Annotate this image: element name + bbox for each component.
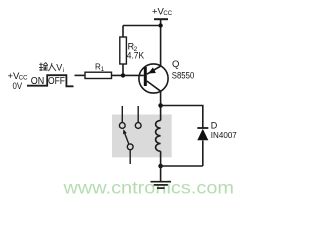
svg-text:4.7K: 4.7K — [127, 51, 144, 61]
input square waveform ON/OFF — [27, 75, 74, 86]
wire coil bottom — [160, 151, 162, 166]
svg-text:i: i — [63, 68, 64, 74]
transistor Q circle — [139, 64, 168, 93]
transistor base bar — [144, 67, 147, 86]
wire R2 bottom lead — [122, 64, 124, 75]
wire +Vcc rail left to R2 — [123, 25, 161, 27]
wire +Vcc terminal bar — [154, 18, 168, 20]
svg-text:S8550: S8550 — [172, 70, 195, 80]
wire collector vertical — [160, 91, 162, 120]
wire base from R1 to transistor — [112, 74, 144, 76]
relay armature arrowhead — [123, 129, 127, 134]
resistor R1 box — [85, 72, 112, 78]
wire input to R1 — [75, 74, 86, 76]
svg-text:Q: Q — [172, 59, 179, 70]
relay contact stub right — [137, 106, 139, 123]
transistor collector diagonal — [147, 81, 161, 91]
relay contact stub bottom — [129, 150, 131, 164]
label 输入Vi (input) : CJK drawn as vector strokes — [39, 63, 56, 71]
wire diode bottom lead — [202, 141, 204, 167]
relay contact stub left — [121, 106, 123, 123]
node coil bottom junction — [158, 164, 163, 169]
relay contact circle movable — [127, 144, 133, 150]
wire top rail to diode — [161, 106, 203, 129]
wire +Vcc stub down — [160, 20, 162, 26]
wire bottom rail diode to coil — [161, 165, 203, 167]
svg-text:CC: CC — [163, 11, 172, 17]
wire ground lead — [160, 166, 162, 182]
ground — [151, 182, 172, 188]
node R2/base junction — [121, 73, 125, 77]
relay coil loops — [156, 120, 161, 151]
diode D triangle — [197, 129, 208, 141]
wire R2 top lead — [122, 26, 124, 38]
svg-text:V: V — [56, 63, 62, 73]
node +Vcc junction — [158, 23, 162, 27]
svg-text:ON: ON — [31, 75, 45, 87]
wire emitter vertical — [160, 26, 162, 67]
svg-text:IN4007: IN4007 — [211, 130, 237, 140]
node collector junction — [158, 103, 163, 108]
relay body (shaded box) — [112, 115, 172, 158]
glyph 输 — [39, 63, 42, 71]
transistor PNP emitter arrow — [148, 67, 156, 73]
svg-text:www.cntronics.com: www.cntronics.com — [62, 178, 234, 198]
svg-text:0V: 0V — [13, 81, 23, 91]
transistor emitter diagonal — [147, 66, 161, 74]
glyph 入 — [49, 63, 56, 70]
svg-text:OFF: OFF — [48, 75, 65, 87]
relay contact circle right — [135, 123, 141, 129]
resistor R2 box — [120, 37, 127, 64]
diode D cathode bar — [197, 127, 208, 129]
relay contact circle left — [119, 123, 125, 129]
relay armature — [125, 134, 129, 145]
